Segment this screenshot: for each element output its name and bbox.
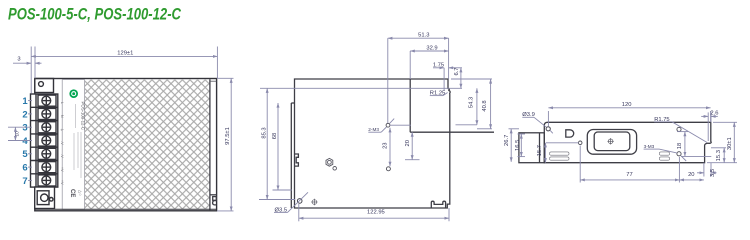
D hole: [566, 130, 574, 137]
dimension 97.5±1: [217, 78, 234, 211]
svg-text:20: 20: [405, 140, 411, 146]
svg-text:10: 10: [15, 131, 20, 137]
terminal label column: [60, 102, 65, 185]
logo MW: [69, 89, 78, 98]
terminal block: [31, 94, 58, 187]
top right lip line: [210, 80, 217, 82]
top-left screw box: [35, 79, 54, 93]
dimension 2.6: [701, 112, 718, 141]
svg-text:2.6: 2.6: [710, 110, 718, 116]
left flange line: [290, 103, 292, 208]
svg-text:+V: +V: [60, 167, 64, 172]
dimension 120: [548, 108, 710, 126]
svg-text:120: 120: [622, 102, 632, 108]
svg-text:3.5: 3.5: [710, 169, 716, 177]
dimension 3: [13, 62, 42, 64]
svg-text:1: 1: [22, 96, 28, 107]
M3 hole upper: [386, 123, 390, 127]
left edge rail notch: [295, 154, 299, 166]
number leader lines: [8, 101, 32, 181]
svg-text:+V: +V: [60, 180, 64, 185]
svg-text:CE: CE: [69, 189, 75, 197]
svg-text:6: 6: [22, 163, 27, 174]
svg-text:2: 2: [22, 109, 27, 120]
dimension 32.9: [410, 51, 448, 79]
svg-text:23: 23: [383, 142, 389, 148]
terminal cover: [519, 133, 544, 163]
svg-text:16.5: 16.5: [515, 140, 521, 151]
right-edge connector notch: [210, 195, 217, 205]
svg-text:△○: △○: [78, 190, 83, 196]
dimension 129±1: [31, 47, 217, 94]
fan slot inner: [594, 132, 630, 151]
dimension 16.5: [518, 134, 526, 157]
dimension 3.5: [697, 163, 717, 177]
svg-text:POS-100-5-C, POS-100-12-C: POS-100-5-C, POS-100-12-C: [8, 6, 181, 24]
dimension 85.3: [266, 88, 268, 199]
inner right wall line: [209, 79, 211, 210]
svg-text:6.7: 6.7: [454, 67, 460, 75]
svg-text:2-M3: 2-M3: [368, 127, 379, 132]
chassis outline: [295, 79, 451, 208]
svg-text:5: 5: [22, 149, 28, 160]
terminal numbers 1-7: [22, 96, 28, 187]
svg-text:32.9: 32.9: [426, 45, 437, 51]
terminal screws 1-7: [38, 95, 56, 186]
vent pills left: [550, 152, 570, 155]
left case bottom edge reinforce: [35, 208, 217, 210]
svg-text:L: L: [60, 102, 64, 104]
dimension 30±1: [707, 122, 737, 162]
long extension line: [260, 87, 462, 89]
M3 hole lower: [386, 167, 390, 171]
svg-text:POS-100-12-C: POS-100-12-C: [81, 102, 86, 130]
M3 hole lower: [677, 152, 681, 156]
svg-text:7: 7: [22, 176, 27, 187]
svg-text:54.3: 54.3: [468, 97, 474, 108]
dimension 15.3: [711, 147, 726, 149]
left hole: [578, 141, 582, 145]
dimension 40.8: [451, 79, 492, 129]
label small print: [74, 104, 81, 178]
svg-text:20: 20: [688, 172, 694, 178]
potentiometer box: [35, 187, 55, 209]
dimension 15.7: [546, 142, 579, 144]
dimension 20: [679, 179, 704, 181]
svg-text:-V: -V: [60, 154, 64, 158]
svg-text:68: 68: [272, 133, 278, 139]
svg-text:51.3: 51.3: [418, 33, 429, 39]
svg-text:3-M3: 3-M3: [644, 144, 655, 149]
label strip: [62, 80, 84, 210]
svg-text:85.3: 85.3: [261, 127, 267, 138]
case outline: [544, 122, 711, 162]
svg-text:-V: -V: [60, 141, 64, 145]
svg-text:26.7: 26.7: [504, 135, 510, 146]
svg-text:4: 4: [22, 136, 28, 147]
dimension 20: [411, 132, 413, 160]
dimension 122.95: [299, 204, 449, 221]
vent pills right: [659, 152, 669, 155]
fan slot outer: [587, 130, 636, 155]
svg-text:77: 77: [626, 172, 632, 178]
svg-text:97.5±1: 97.5±1: [225, 127, 231, 145]
dimension 51.3: [388, 38, 449, 123]
svg-text:15.7: 15.7: [537, 145, 543, 156]
bottom staple notch: [431, 201, 445, 208]
dimension 1.75: [433, 68, 462, 91]
svg-text:1.75: 1.75: [433, 62, 444, 68]
hex nut: [326, 158, 337, 170]
case body: [35, 79, 217, 211]
svg-text:18: 18: [677, 143, 683, 149]
svg-text:129±1: 129±1: [117, 51, 133, 57]
corner hole Ø3.9: [546, 127, 550, 131]
dimension 23: [389, 128, 391, 167]
dimension 77: [580, 146, 679, 183]
svg-text:3: 3: [17, 57, 20, 63]
terminal pitch dimension: [14, 127, 16, 140]
vent hatch area: [85, 80, 210, 210]
dimension 54.3: [476, 88, 478, 125]
mounting hole Ø3.5: [297, 199, 302, 204]
dimension 26.7: [509, 128, 520, 130]
svg-text:N: N: [60, 115, 64, 118]
dimension 68: [277, 103, 279, 190]
interior partition: [409, 79, 411, 132]
M3 hole upper: [677, 127, 681, 131]
svg-text:40.8: 40.8: [482, 100, 488, 111]
screw mark: [607, 138, 613, 144]
dimension 18: [677, 132, 711, 157]
svg-text:3: 3: [22, 123, 27, 134]
svg-text:⏚: ⏚: [60, 128, 65, 132]
screw mark: [311, 199, 317, 205]
svg-text:30±1: 30±1: [727, 137, 733, 150]
svg-text:15.3: 15.3: [716, 150, 722, 161]
svg-text:122.95: 122.95: [367, 209, 385, 215]
dimension 6.7: [460, 68, 462, 89]
